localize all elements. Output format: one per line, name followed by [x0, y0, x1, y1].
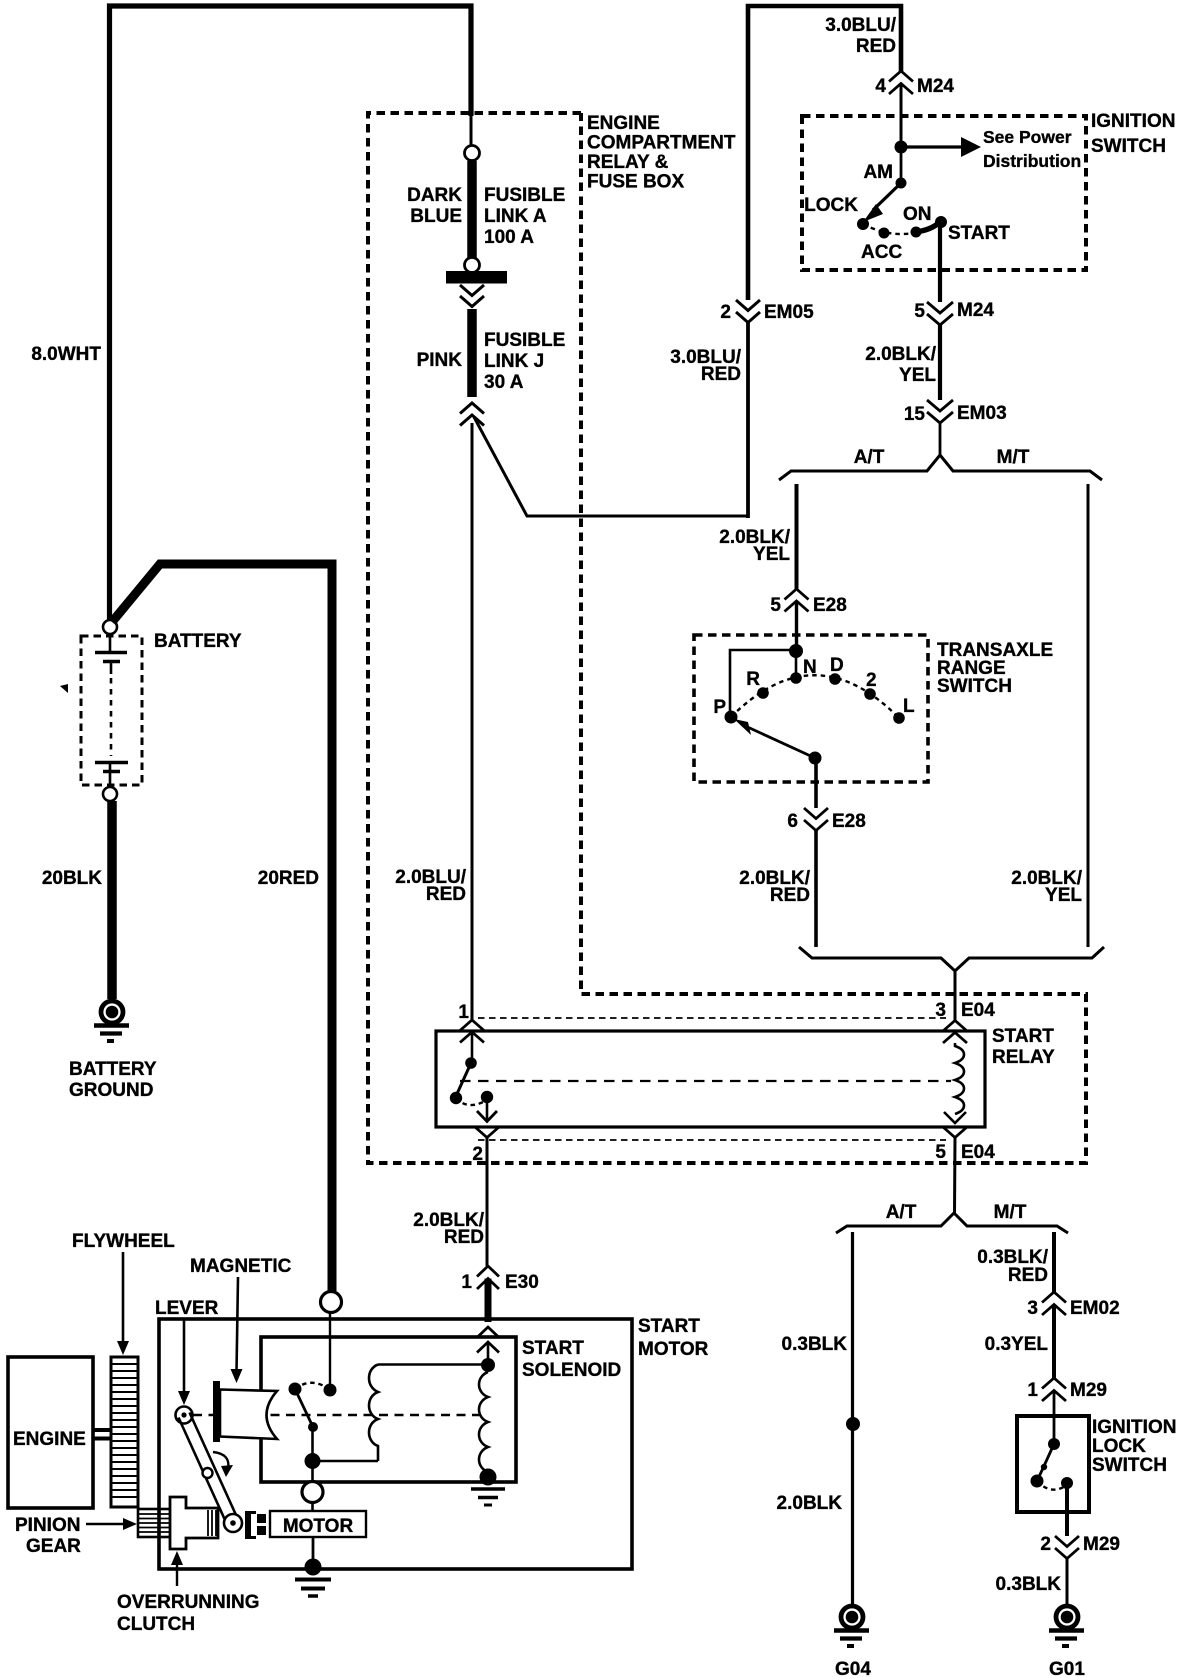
svg-text:G04: G04 — [835, 1659, 871, 1678]
svg-text:START: START — [948, 223, 1010, 244]
label START RELAY — [992, 1026, 1055, 1068]
label 2.0BLK/YEL (M/T branch) — [1011, 868, 1082, 906]
svg-text:IGNITION: IGNITION — [1091, 111, 1175, 132]
svg-text:M29: M29 — [1083, 1534, 1120, 1555]
connector 2 EM05 — [720, 300, 814, 323]
svg-text:P: P — [713, 697, 726, 718]
connector 3 E04 — [935, 1000, 995, 1021]
svg-text:START: START — [522, 1338, 584, 1359]
svg-text:SOLENOID: SOLENOID — [522, 1360, 621, 1381]
wire 3.0BLU/RED vertical through EM05 — [748, 6, 901, 518]
relay internal dashed link — [460, 1080, 951, 1082]
wire terminal stud to solenoid contact — [329, 1313, 331, 1384]
svg-text:ENGINE: ENGINE — [13, 1429, 86, 1450]
svg-text:LEVER: LEVER — [155, 1298, 219, 1319]
contact L — [893, 712, 905, 724]
svg-text:ON: ON — [903, 204, 932, 225]
svg-text:2.0BLK: 2.0BLK — [777, 1493, 843, 1514]
start relay box — [436, 1031, 985, 1127]
svg-text:M/T: M/T — [994, 1202, 1027, 1223]
svg-text:1: 1 — [1027, 1380, 1038, 1401]
node motor ground junction — [305, 1559, 322, 1576]
label 2.0BLK/YEL — [865, 344, 936, 386]
svg-text:RED: RED — [426, 884, 466, 905]
svg-text:4: 4 — [875, 76, 886, 97]
transaxle contact arc (dashed) — [731, 675, 899, 718]
node motor terminal stud — [302, 1482, 323, 1503]
magnetic plunger body — [220, 1390, 277, 1440]
contact START — [935, 216, 947, 228]
svg-text:R: R — [746, 669, 760, 690]
svg-text:EM05: EM05 — [764, 302, 814, 323]
relay pin 1 chevrons — [460, 1020, 484, 1043]
solenoid switch dashed bridge — [295, 1383, 330, 1390]
label 3.0BLU/RED (below EM05) — [670, 347, 741, 385]
overrunning clutch housing — [170, 1497, 218, 1549]
wire output junction to motor terminal — [311, 1461, 314, 1482]
label IGNITION LOCK SWITCH — [1092, 1417, 1176, 1476]
battery B1 — [81, 620, 142, 801]
svg-text:2: 2 — [720, 302, 731, 323]
svg-text:3.0BLU/: 3.0BLU/ — [825, 15, 896, 36]
svg-text:AM: AM — [863, 162, 893, 183]
connector 5 M24 — [914, 300, 994, 325]
node terminal circle below fusible link A — [465, 258, 480, 273]
wire start relay pin 5 down to split — [953, 1138, 957, 1215]
wire EM03 to A/T M/T split — [939, 423, 942, 456]
wire stud to motor — [311, 1502, 314, 1512]
svg-text:3: 3 — [1027, 1298, 1038, 1319]
wire 20RED battery positive cable — [112, 564, 332, 1291]
svg-text:15: 15 — [904, 404, 926, 425]
wire pivot down to 6 E28 — [814, 758, 818, 808]
solenoid switch lever — [295, 1389, 313, 1427]
wire junction to P contact — [730, 650, 796, 712]
svg-text:M24: M24 — [917, 76, 954, 97]
wire START contact down to 5 M24 — [938, 226, 942, 302]
svg-text:OVERRUNNING: OVERRUNNING — [117, 1592, 260, 1613]
pinion gear — [138, 1509, 171, 1537]
svg-text:1: 1 — [458, 1002, 469, 1023]
svg-text:20RED: 20RED — [258, 868, 319, 889]
label DARK BLUE — [407, 185, 462, 227]
node transaxle lever pivot — [809, 752, 822, 765]
svg-text:L: L — [903, 696, 915, 717]
label FUSIBLE LINK J 30 A — [484, 330, 565, 393]
svg-text:N: N — [803, 657, 817, 678]
wire 0.3YEL EM02 to 1 M29 — [1052, 1305, 1056, 1379]
magnetic plunger core bar — [213, 1381, 220, 1442]
wire lock switch to 2 M29 — [1065, 1483, 1069, 1536]
svg-text:A/T: A/T — [886, 1202, 917, 1223]
svg-text:See Power: See Power — [983, 127, 1072, 147]
A/T M/T merge bracket — [799, 947, 1104, 971]
contact N — [790, 672, 802, 684]
ground solenoid internal — [471, 1489, 505, 1505]
contact ON — [911, 227, 922, 238]
label OVERRUNNING CLUTCH with arrow — [117, 1551, 260, 1635]
wire 5 E28 into transaxle range switch — [795, 601, 798, 651]
wire start relay pin 3 up to merge — [954, 970, 957, 1020]
fusible link J 30A (pink) — [467, 309, 477, 397]
wire output junction to hold-in coil — [313, 1460, 379, 1462]
node 20RED battery terminal stud — [321, 1292, 342, 1313]
svg-text:FLYWHEEL: FLYWHEEL — [72, 1231, 175, 1252]
svg-text:RED: RED — [856, 36, 896, 57]
svg-text:EM03: EM03 — [957, 403, 1007, 424]
label FUSIBLE LINK A 100 A — [484, 185, 565, 248]
connector chevrons below fusible link J — [460, 403, 484, 426]
connector 15 EM03 — [904, 400, 1007, 425]
wire 2.0BLK/RED 6 E28 down to merge — [814, 831, 818, 948]
flywheel ring gear — [111, 1357, 138, 1507]
node transaxle feed junction — [789, 644, 803, 658]
wire 0.3BLK to ground G01 — [1066, 1559, 1069, 1605]
arrow to see power distribution — [901, 137, 981, 157]
svg-text:M/T: M/T — [997, 447, 1030, 468]
engine compartment relay and fuse box (dashed outline) — [368, 113, 1086, 1163]
wire 4 M24 into ignition switch — [900, 84, 903, 148]
node solenoid winding junction — [481, 1358, 495, 1372]
motor brush holder bar — [245, 1511, 256, 1539]
node terminal circle above fusible link A — [465, 146, 480, 161]
svg-text:FUSE BOX: FUSE BOX — [587, 172, 684, 193]
contact D — [829, 673, 841, 685]
relay pin 3 chevrons — [943, 1021, 967, 1044]
svg-text:PINION: PINION — [15, 1515, 80, 1536]
svg-text:MOTOR: MOTOR — [638, 1339, 709, 1360]
svg-text:SWITCH: SWITCH — [1091, 136, 1166, 157]
ground G01 — [1049, 1606, 1084, 1646]
svg-text:FUSIBLE: FUSIBLE — [484, 185, 565, 206]
svg-text:E28: E28 — [813, 595, 847, 616]
svg-text:8.0WHT: 8.0WHT — [31, 344, 101, 365]
svg-text:LOCK: LOCK — [804, 195, 858, 216]
wire junction to N contact — [795, 651, 798, 676]
node AM feed junction — [895, 141, 908, 154]
svg-text:CLUTCH: CLUTCH — [117, 1614, 195, 1635]
svg-text:M24: M24 — [957, 300, 994, 321]
svg-text:6: 6 — [787, 811, 798, 832]
mechanical centerline (dashed) — [193, 1414, 484, 1417]
svg-text:G01: G01 — [1049, 1659, 1085, 1678]
svg-text:ACC: ACC — [861, 242, 902, 263]
svg-text:D: D — [830, 655, 844, 676]
engine to flywheel coupling bars — [93, 1428, 111, 1441]
svg-text:RED: RED — [770, 885, 810, 906]
relay pin 2 chevron — [475, 1127, 499, 1138]
solenoid switch contact right — [324, 1384, 337, 1397]
shift lever arm — [179, 1413, 239, 1526]
label 3.0BLU/RED (top) — [825, 15, 896, 57]
ignition switch lever — [863, 183, 901, 222]
ignition lock switch box — [1017, 1416, 1089, 1512]
svg-text:LINK J: LINK J — [484, 351, 544, 372]
svg-text:START: START — [638, 1316, 700, 1337]
svg-text:SWITCH: SWITCH — [1092, 1455, 1167, 1476]
connector E04 dashed strip bottom — [478, 1139, 946, 1141]
ignition switch contact arc (dashed) — [863, 224, 935, 234]
svg-text:A/T: A/T — [854, 447, 885, 468]
svg-text:E30: E30 — [505, 1272, 539, 1293]
svg-text:GROUND: GROUND — [69, 1080, 153, 1101]
label PINION GEAR with arrow — [15, 1515, 137, 1557]
contact 2 — [864, 688, 876, 700]
svg-text:FUSIBLE: FUSIBLE — [484, 330, 565, 351]
svg-text:BATTERY: BATTERY — [69, 1059, 157, 1080]
svg-text:2: 2 — [866, 670, 877, 691]
label 0.3BLK/RED — [977, 1247, 1048, 1286]
label IGNITION SWITCH — [1091, 111, 1175, 157]
svg-text:100 A: 100 A — [484, 227, 534, 248]
contact P — [725, 711, 738, 724]
relay switch — [450, 1032, 497, 1122]
label START MOTOR — [638, 1316, 709, 1360]
connector 5 E04 — [935, 1142, 995, 1163]
svg-text:ENGINE: ENGINE — [587, 113, 660, 134]
svg-text:0.3YEL: 0.3YEL — [985, 1334, 1049, 1355]
relay pin 5 chevron — [943, 1127, 967, 1138]
fusible link A 100A (dark blue) — [467, 161, 477, 258]
wire 3.0BLU/RED fusible link J to ignition switch — [474, 417, 748, 516]
solenoid pull-in coil — [479, 1372, 488, 1472]
wire lever to output junction — [311, 1427, 314, 1461]
svg-text:MAGNETIC: MAGNETIC — [190, 1256, 292, 1277]
svg-text:E04: E04 — [961, 1142, 995, 1163]
label MAGNETIC with arrow — [190, 1256, 292, 1383]
svg-text:GEAR: GEAR — [26, 1536, 81, 1557]
start solenoid box — [261, 1337, 516, 1482]
shift lever lower pivot — [224, 1514, 242, 1532]
svg-text:RED: RED — [1008, 1265, 1048, 1286]
bridge ON to START (thick) — [916, 222, 940, 232]
svg-text:YEL: YEL — [753, 544, 790, 565]
wire start relay pin 2 down to E30 — [486, 1138, 489, 1267]
svg-text:2.0BLK/: 2.0BLK/ — [865, 344, 936, 365]
label 2.0BLK/RED (A/T lower) — [739, 868, 810, 906]
engine box — [8, 1357, 93, 1508]
wire 2.0BLK/YEL 5 M24 to 15 EM03 — [938, 325, 942, 400]
ignition lock switch contacts and lever — [1031, 1438, 1074, 1490]
node junction on G04 branch — [846, 1417, 860, 1431]
label LEVER with arrow — [155, 1298, 219, 1405]
svg-text:SWITCH: SWITCH — [937, 676, 1012, 697]
start motor box — [159, 1319, 632, 1569]
svg-text:RELAY &: RELAY & — [587, 152, 669, 173]
wire 8.0WHT battery positive to fuse box (top loop) — [110, 6, 472, 620]
relay coil — [944, 1043, 966, 1123]
svg-text:RED: RED — [701, 364, 741, 385]
svg-text:2: 2 — [472, 1144, 483, 1165]
svg-text:E04: E04 — [961, 1000, 995, 1021]
ground start motor — [295, 1580, 331, 1597]
svg-text:1: 1 — [461, 1272, 472, 1293]
ground battery ground G — [94, 1001, 129, 1041]
node lever mid contact — [308, 1422, 318, 1432]
wire 20BLK battery negative cable — [107, 801, 117, 999]
ground G04 — [834, 1606, 869, 1646]
label 2.0BLK/YEL (A/T branch) — [719, 527, 790, 565]
label TRANSAXLE RANGE SWITCH — [937, 640, 1053, 697]
label ENGINE COMPARTMENT RELAY & FUSE BOX — [587, 113, 736, 193]
node solenoid output junction — [305, 1453, 321, 1469]
wire thick 1 E30 into start motor — [485, 1279, 492, 1323]
wire M/T branch (right) — [1087, 484, 1090, 947]
svg-text:LINK A: LINK A — [484, 206, 547, 227]
connector chevrons below bus bar — [460, 285, 484, 307]
shift lever upper pivot — [176, 1407, 193, 1424]
wire 1 M29 into ignition lock switch — [1053, 1391, 1056, 1445]
transaxle range switch box (dashed) — [694, 635, 928, 782]
wire winding top link — [378, 1363, 482, 1365]
svg-text:RED: RED — [444, 1227, 484, 1248]
svg-text:YEL: YEL — [899, 365, 936, 386]
label 2.0BLU/RED — [395, 867, 466, 905]
wire junction to AM contact — [900, 147, 903, 183]
svg-text:Distribution: Distribution — [983, 151, 1081, 171]
ignition switch box (dashed) — [802, 116, 1086, 270]
solenoid pin chevrons at box entry — [477, 1327, 499, 1353]
svg-text:20BLK: 20BLK — [42, 868, 102, 889]
svg-text:RELAY: RELAY — [992, 1047, 1055, 1068]
connector 5 E28 — [770, 589, 846, 616]
svg-text:YEL: YEL — [1045, 885, 1082, 906]
contact R — [757, 687, 769, 699]
svg-text:5: 5 — [770, 595, 781, 616]
svg-text:E28: E28 — [832, 811, 866, 832]
connector 3 EM02 — [1027, 1292, 1119, 1319]
svg-text:BLUE: BLUE — [410, 206, 462, 227]
label See Power Distribution — [983, 127, 1081, 171]
connector 1 E30 — [461, 1266, 538, 1293]
wire 0.3BLK/RED M/T branch to EM02 — [1052, 1232, 1056, 1292]
clutch splined shaft — [208, 1510, 216, 1536]
connector 2 M29 — [1040, 1534, 1120, 1559]
connector 6 E28 — [787, 808, 865, 832]
artifact speck — [60, 684, 68, 693]
connector E04 dashed strip top — [478, 1017, 946, 1019]
wire into solenoid winding junction — [487, 1342, 490, 1365]
svg-text:START: START — [992, 1026, 1054, 1047]
svg-text:M29: M29 — [1070, 1380, 1107, 1401]
svg-text:3: 3 — [935, 1000, 946, 1021]
label START SOLENOID — [522, 1338, 621, 1381]
solenoid hold-in coil — [369, 1365, 378, 1462]
wire 2.0BLU/RED fusible link J to start relay pin 1 — [471, 423, 474, 1020]
svg-text:2: 2 — [1040, 1534, 1051, 1555]
wire A/T branch down to 5 E28 — [795, 484, 799, 589]
label FLYWHEEL with arrow — [72, 1231, 175, 1355]
motor box — [270, 1511, 366, 1537]
svg-text:COMPARTMENT: COMPARTMENT — [587, 133, 736, 154]
svg-text:BATTERY: BATTERY — [154, 631, 242, 652]
svg-text:5: 5 — [914, 301, 925, 322]
node solenoid coil ground junction — [480, 1469, 497, 1486]
svg-text:5: 5 — [935, 1142, 946, 1163]
contact AM — [896, 178, 907, 189]
svg-text:EM02: EM02 — [1070, 1298, 1120, 1319]
solenoid switch contact left — [289, 1383, 302, 1396]
contact ACC — [879, 228, 890, 239]
svg-text:LOCK: LOCK — [1092, 1436, 1146, 1457]
A/T M/T split bracket (lower) — [836, 1213, 1068, 1233]
connector 4 M24 — [875, 71, 954, 97]
fuse box bus bar — [446, 271, 507, 284]
shift lever middle pivot — [203, 1468, 213, 1478]
wire motor to ground — [312, 1537, 315, 1566]
connector 1 M29 — [1027, 1378, 1107, 1401]
svg-text:0.3BLK: 0.3BLK — [996, 1574, 1062, 1595]
svg-text:IGNITION: IGNITION — [1092, 1417, 1176, 1438]
svg-text:30 A: 30 A — [484, 372, 524, 393]
transaxle lever with arrowhead — [734, 719, 815, 758]
svg-text:0.3BLK: 0.3BLK — [782, 1334, 848, 1355]
svg-text:DARK: DARK — [407, 185, 462, 206]
lever rotation arrow — [213, 1452, 233, 1477]
motor brushes — [257, 1514, 266, 1535]
svg-text:MOTOR: MOTOR — [283, 1516, 354, 1537]
label 2.0BLK/RED (pin2 wire) — [413, 1210, 484, 1248]
contact LOCK — [857, 218, 869, 230]
svg-text:PINK: PINK — [417, 350, 463, 371]
A/T M/T split bracket (upper) — [779, 455, 1102, 480]
wire 0.3BLK A/T branch to ground G04 — [851, 1232, 854, 1604]
